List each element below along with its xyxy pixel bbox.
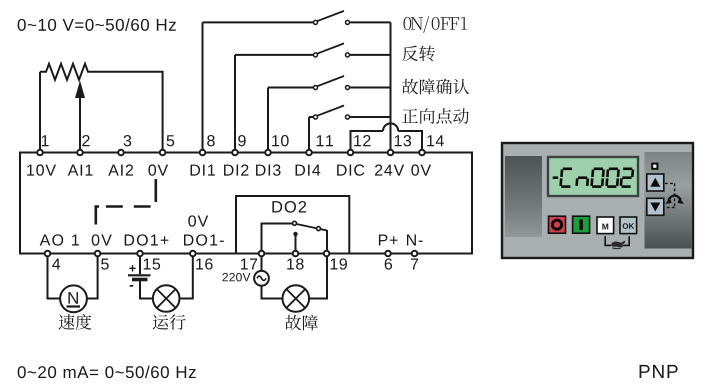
pin number 17 — [241, 258, 257, 269]
switch forward jog (DI4) — [309, 106, 391, 151]
pin number 5 — [101, 258, 109, 269]
net label AI1 — [68, 165, 93, 176]
wire terminal1 to potentiometer left — [39, 72, 41, 151]
terminal 12 (top row pin 12) — [348, 150, 354, 156]
BOP button: up arrow — [647, 174, 664, 191]
pin number 4 — [52, 258, 60, 269]
value label: 0~20 mA= 0~50/60 Hz (analog output scaling) — [18, 366, 196, 378]
wire run lamp to terminal 16 (DO1-) — [180, 256, 193, 299]
terminal 15 (bottom row pin 15) — [137, 251, 143, 257]
net label 0V — [148, 164, 168, 175]
net label AI2 — [108, 164, 133, 175]
pin number 15 — [144, 258, 160, 269]
BOP button: start (green I) — [573, 216, 590, 233]
lamp H2 fault indicator — [283, 285, 310, 312]
BOP LCD readout -Cn002 — [553, 169, 633, 187]
terminal 19 (bottom row pin 19) — [324, 251, 330, 257]
potentiometer R (10V-0V) — [40, 64, 96, 80]
BOP LCD display frame — [548, 157, 638, 196]
terminal 17 (bottom row pin 17) — [259, 251, 265, 257]
switch fault acknowledge (DI3) — [268, 76, 391, 151]
net label AO 1 — [40, 234, 79, 245]
terminal 13 (top row pin 13) — [388, 150, 394, 156]
wire fault lamp to terminal 19 — [309, 256, 327, 299]
label ON/OFF1 — [403, 16, 467, 32]
BOP button: display/toggle (small square) — [651, 163, 658, 170]
terminal 1 (top row pin 1) — [37, 150, 43, 156]
BOP button: down arrow — [647, 198, 664, 215]
pin number 8 — [207, 135, 215, 146]
net label DO1+ — [125, 234, 169, 245]
relay DO2 box — [236, 196, 349, 254]
pin number 2 — [82, 135, 89, 146]
pin number 7 — [411, 258, 418, 269]
terminal 7 (bottom row pin 7) — [412, 251, 418, 257]
label zhengxiang-diandong (forward jog) — [402, 108, 469, 124]
value label: 0~10 V=0~50/60 Hz (analog input scaling) — [18, 18, 176, 30]
BOP button: stop (red O) — [549, 216, 566, 233]
relay DO2 changeover contact — [262, 221, 328, 251]
pin number 14 — [427, 135, 444, 146]
operator panel BOP housing — [502, 143, 693, 258]
wire AO1 (terminal 4) to speed meter — [48, 256, 61, 299]
terminal 2 (top row pin 2) — [77, 150, 83, 156]
net label DO1- — [184, 234, 224, 245]
value label 220V — [222, 273, 250, 281]
wire battery to run lamp — [140, 281, 153, 299]
battery V1 (DO1 supply) — [128, 265, 151, 287]
terminal 18 (bottom row pin 18) — [293, 251, 299, 257]
label yun-xing (run) — [153, 314, 186, 330]
wire speed meter to terminal 5 (0V) — [87, 256, 98, 299]
terminal 10 (top row pin 10) — [265, 150, 271, 156]
wire potentiometer right to terminal 5 — [96, 72, 163, 151]
pin number 12 — [354, 135, 370, 146]
net label DI3 — [256, 164, 280, 175]
BOP hold-keys bracket with hand icon — [605, 236, 629, 248]
net label P+ — [379, 234, 398, 245]
switch ON/OFF1 (DI1) — [203, 11, 391, 151]
BOP button: OK — [620, 217, 637, 234]
terminal 3 (top row pin 3) — [118, 150, 124, 156]
terminal 4 (bottom row pin 4) — [45, 251, 51, 257]
net label DI2 — [224, 164, 248, 175]
label DO2 — [272, 201, 306, 213]
label fan-zhuan (reverse) — [402, 45, 435, 61]
jumper wire terminal 12 (DIC) to terminal 14 (0V) with hop over 13 — [351, 123, 423, 150]
terminal 8 (top row pin 8) — [200, 150, 206, 156]
wire terminal 17 to AC source — [261, 256, 263, 272]
BOP dashed selector path with curved arrow — [665, 183, 684, 207]
net label 0V — [92, 234, 112, 245]
net label DIC — [337, 164, 364, 175]
pin number 18 — [287, 258, 303, 269]
pin number 11 — [317, 135, 333, 146]
pin number 16 — [196, 258, 212, 269]
net label 0V — [411, 164, 431, 175]
terminal block outline (drive control terminal strip) — [20, 153, 472, 254]
terminal 14 (top row pin 14) — [419, 150, 425, 156]
net label 24V — [375, 164, 404, 175]
wire terminal 15 (DO1+) to battery — [139, 256, 141, 275]
terminal 5 (top row pin 5) — [160, 150, 166, 156]
value label: PNP wiring mode — [640, 365, 678, 378]
switch reverse (DI2) — [235, 43, 391, 150]
pin number 5 — [167, 135, 175, 146]
pin number 3 — [124, 135, 132, 146]
pin number 19 — [331, 258, 347, 269]
pin number 6 — [385, 258, 392, 269]
terminal 5 (bottom row pin 5) — [95, 251, 101, 257]
wire AC source to fault lamp — [262, 286, 283, 299]
lamp H1 run indicator — [153, 285, 180, 312]
wire 24V bus to terminal 13 — [390, 22, 392, 150]
dashed wire top 0V to bottom 0V (internal link) — [96, 179, 156, 225]
label gu-zhang (fault) — [285, 315, 318, 331]
pin number 13 — [395, 135, 411, 146]
terminal 16 (bottom row pin 16) — [190, 251, 196, 257]
net label 10V — [27, 164, 56, 175]
net label DI4 — [296, 165, 321, 176]
pin number 10 — [272, 135, 288, 146]
BOP button: M (mode) — [597, 217, 614, 234]
pin number 9 — [238, 135, 245, 146]
label guzhang-queren (fault acknowledge) — [402, 79, 469, 95]
net label DI1 — [191, 165, 215, 176]
net label 0V (above DO1-) — [188, 215, 208, 226]
label su-du (speed) — [59, 314, 92, 330]
terminal 11 (top row pin 11) — [306, 150, 312, 156]
terminal 6 (bottom row pin 6) — [385, 251, 391, 257]
AC source 220V — [254, 271, 269, 286]
net label N- — [407, 234, 423, 245]
terminal 9 (top row pin 9) — [232, 150, 238, 156]
pin number 1 — [42, 135, 49, 146]
meter M1 speed indicator (N) — [60, 285, 87, 312]
potentiometer wiper arrow to AI1 (terminal 2) — [75, 81, 85, 151]
